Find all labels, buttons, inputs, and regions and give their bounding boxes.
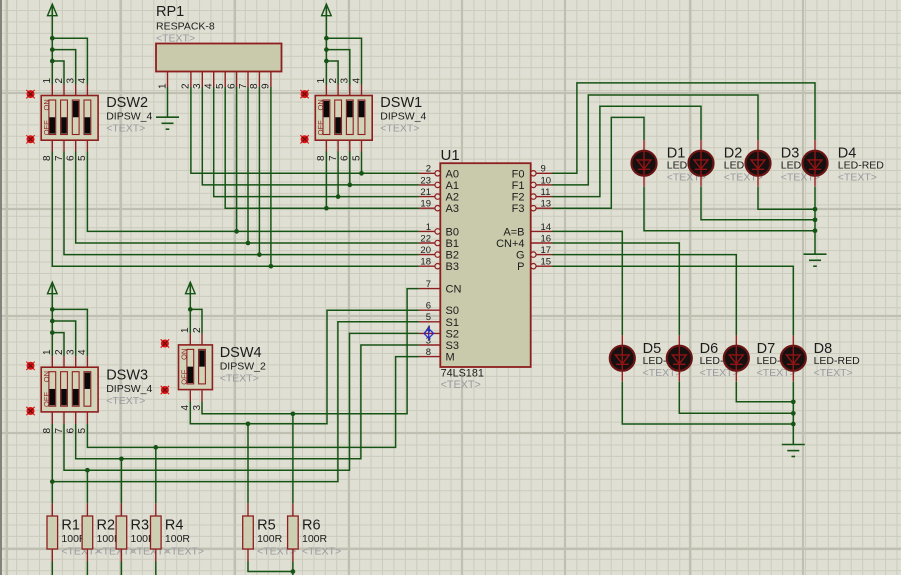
resistor R1 100R <box>47 503 58 561</box>
U1 pin 4 S2 <box>419 324 459 341</box>
U1 pin 7 CN <box>419 279 462 296</box>
svg-text:100R: 100R <box>257 533 283 545</box>
junction dot DSW4 power <box>188 307 193 312</box>
svg-text:2: 2 <box>54 78 65 84</box>
U1 pin 19 A3 <box>419 199 459 216</box>
svg-text:<TEXT>: <TEXT> <box>441 379 481 391</box>
svg-text:F2: F2 <box>512 192 525 204</box>
svg-text:A3: A3 <box>446 203 459 215</box>
svg-text:DIPSW_4: DIPSW_4 <box>106 383 152 395</box>
wire net B1 : DSW2 pin6 / RP1 pin7 to U1 B1 <box>76 152 419 244</box>
svg-text:P: P <box>517 261 524 273</box>
svg-text:<TEXT>: <TEXT> <box>106 395 145 407</box>
svg-text:7: 7 <box>54 155 65 161</box>
U1 pin 17 G <box>516 245 552 262</box>
svg-text:3: 3 <box>192 405 203 411</box>
svg-text:F0: F0 <box>512 168 525 180</box>
U1 pin 5 S1 <box>419 312 459 329</box>
svg-text:DSW1: DSW1 <box>380 95 422 111</box>
svg-text:CN: CN <box>446 284 462 296</box>
svg-text:<TEXT>: <TEXT> <box>165 546 204 558</box>
power symbol VCC above DSW1 <box>325 4 327 16</box>
svg-text:2: 2 <box>426 164 431 175</box>
wire net S2 : DSW3 pin7 / R2 to U1 S2 <box>64 333 419 470</box>
U1 pin 9 F0 <box>512 164 552 181</box>
wire net A=B : U1 to D5 <box>552 231 622 335</box>
power symbol VCC above DSW3 <box>51 282 53 294</box>
svg-text:<TEXT>: <TEXT> <box>380 123 419 135</box>
svg-text:S3: S3 <box>446 340 459 352</box>
wire R2 bottom <box>86 562 88 575</box>
wire net B2 : DSW2 pin7 / RP1 pin8 to U1 B2 <box>64 152 419 255</box>
U1 pin 2 A0 <box>419 164 459 181</box>
U1 pin 16 CN+4 <box>496 233 552 250</box>
svg-text:6: 6 <box>426 301 431 312</box>
svg-text:3: 3 <box>66 349 77 355</box>
svg-text:23: 23 <box>420 175 431 186</box>
no-connect marker DSW3 top-left <box>26 362 34 370</box>
svg-text:LED-RED: LED-RED <box>838 159 885 171</box>
svg-text:DIPSW_2: DIPSW_2 <box>220 361 266 373</box>
svg-text:B3: B3 <box>446 261 459 273</box>
resistor R4 100R <box>151 503 162 561</box>
no-connect marker DSW2 bottom-left <box>26 135 34 143</box>
svg-text:<TEXT>: <TEXT> <box>61 546 100 558</box>
svg-text:DSW3: DSW3 <box>106 368 148 384</box>
dip switch DSW2 DIPSW_4 <box>41 78 98 162</box>
svg-text:19: 19 <box>420 199 431 210</box>
svg-text:16: 16 <box>541 233 552 244</box>
svg-text:DSW2: DSW2 <box>106 95 148 111</box>
LED D7 LED-RED <box>724 335 749 381</box>
svg-text:F1: F1 <box>512 180 525 192</box>
dip switch DSW3 DIPSW_4 <box>41 349 98 434</box>
svg-text:S2: S2 <box>446 328 459 340</box>
wire DSW3 power rail <box>51 293 53 356</box>
svg-text:6: 6 <box>226 83 237 89</box>
wire net CN : DSW4 pin3 / R6 to U1 CN <box>202 289 419 414</box>
wire net B3 : DSW2 pin8 / RP1 pin9 to U1 B3 <box>52 152 419 267</box>
wire D2 cathode to ground rail <box>701 186 815 219</box>
svg-text:<TEXT>: <TEXT> <box>106 123 145 135</box>
svg-text:100R: 100R <box>165 533 191 545</box>
wire DSW4 power rail <box>189 293 191 334</box>
svg-text:R5: R5 <box>257 518 276 534</box>
wire net S1 : DSW3 pin8 / R1 to U1 S1 <box>52 322 419 482</box>
svg-text:U1: U1 <box>441 147 460 164</box>
wire R4 bottom <box>155 562 157 575</box>
svg-text:8: 8 <box>42 428 53 434</box>
svg-text:4: 4 <box>204 83 215 89</box>
wire R4 pullup drop <box>155 447 157 503</box>
wire D6 cathode to ground rail <box>679 381 793 413</box>
svg-text:13: 13 <box>541 199 552 210</box>
wire D8 cathode down <box>792 381 794 444</box>
LED D4 LED-RED <box>803 140 828 186</box>
svg-text:8: 8 <box>249 83 260 89</box>
svg-text:9: 9 <box>541 164 546 175</box>
wire D1 cathode to ground rail <box>644 186 815 230</box>
wire net F0 : U1 F0 to D4 <box>552 83 815 173</box>
svg-text:DIPSW_4: DIPSW_4 <box>380 111 426 123</box>
svg-text:18: 18 <box>420 257 431 268</box>
svg-text:4: 4 <box>77 78 88 84</box>
U1 pin 11 F2 <box>512 187 552 204</box>
junction dots DSW2 power <box>50 36 55 41</box>
resistor R3 100R <box>116 503 127 561</box>
power symbol VCC above DSW2 <box>51 4 53 16</box>
svg-text:5: 5 <box>351 155 362 161</box>
svg-text:8: 8 <box>426 347 431 358</box>
svg-text:7: 7 <box>426 279 431 290</box>
ground below D8 <box>782 444 805 446</box>
U1 pin 15 P <box>517 257 552 274</box>
svg-text:S1: S1 <box>446 317 459 329</box>
wire net S3 : DSW3 pin6 / R3 to U1 S3 <box>76 345 419 459</box>
U1 pin 8 M <box>419 347 455 364</box>
svg-text:6: 6 <box>66 155 77 161</box>
wire net CN+4 : U1 to D6 <box>552 243 679 335</box>
svg-text:5: 5 <box>215 83 226 89</box>
LED D8 LED-RED <box>781 335 806 381</box>
no-connect marker DSW2 top-left <box>26 90 34 98</box>
wire DSW1 pin5 drop <box>361 152 363 174</box>
svg-text:1: 1 <box>180 327 191 333</box>
wire net F1 : U1 F1 to D3 <box>552 95 758 185</box>
svg-text:4: 4 <box>180 405 191 411</box>
LED D6 LED-RED <box>667 335 692 381</box>
svg-text:6: 6 <box>340 155 351 161</box>
svg-text:7: 7 <box>238 83 249 89</box>
wire R3 bottom <box>120 562 122 575</box>
svg-text:R4: R4 <box>165 518 184 534</box>
svg-text:G: G <box>516 250 525 262</box>
svg-text:2: 2 <box>181 83 192 89</box>
svg-text:5: 5 <box>77 428 88 434</box>
wire net A3 : RP1 pin5 / DSW1 pin8 to U1 A3 <box>225 87 419 208</box>
svg-text:A2: A2 <box>446 192 459 204</box>
svg-text:B1: B1 <box>446 238 459 250</box>
U1 pin 6 S0 <box>419 301 459 318</box>
U1 pin 14 A=B <box>503 222 552 239</box>
svg-text:2: 2 <box>54 349 65 355</box>
wire R2 pullup drop <box>86 470 88 503</box>
svg-text:R3: R3 <box>131 518 150 534</box>
wire D4 cathode down <box>814 186 816 254</box>
U1 pin 20 B2 <box>419 245 459 262</box>
svg-text:20: 20 <box>420 245 431 256</box>
wire net F2 : U1 F2 to D2 <box>552 106 701 196</box>
svg-text:100R: 100R <box>302 533 328 545</box>
svg-text:R2: R2 <box>97 518 116 534</box>
svg-text:7: 7 <box>328 155 339 161</box>
svg-text:1: 1 <box>426 222 431 233</box>
wire net G : U1 to D7 <box>552 255 736 336</box>
wire net P : U1 to D8 <box>552 266 793 335</box>
svg-text:A0: A0 <box>446 168 459 180</box>
U1 pin 1 B0 <box>419 222 459 239</box>
svg-text:<TEXT>: <TEXT> <box>302 546 341 558</box>
U1 pin 3 S3 <box>419 335 459 352</box>
LED D1 LED-RED <box>632 140 657 186</box>
svg-text:B2: B2 <box>446 250 459 262</box>
LED D3 LED-RED <box>746 140 771 186</box>
svg-text:5: 5 <box>426 312 431 323</box>
wire DSW1 power rail <box>325 15 327 84</box>
wire RP1 pin1 to ground <box>167 87 169 117</box>
dip switch DSW1 DIPSW_4 <box>315 78 372 162</box>
svg-text:22: 22 <box>420 233 431 244</box>
svg-text:5: 5 <box>77 155 88 161</box>
wire DSW2 power rail <box>51 15 53 84</box>
svg-text:4: 4 <box>77 349 88 355</box>
svg-text:F3: F3 <box>512 203 525 215</box>
svg-text:1: 1 <box>42 349 53 355</box>
wire R5 pullup drop <box>247 424 249 504</box>
no-connect marker DSW4 bottom-left <box>161 386 169 394</box>
wire DSW1 pin7 drop <box>337 152 339 197</box>
wire R1 bottom <box>51 562 53 575</box>
svg-text:10: 10 <box>541 175 552 186</box>
wire net M : DSW3 pin5 / R4 to U1 M <box>87 357 419 448</box>
ground below D4 <box>804 253 827 255</box>
svg-text:<TEXT>: <TEXT> <box>156 33 195 45</box>
wire net A0 : RP1 pin2 / DSW1 pin5 to U1 A0 <box>191 87 419 173</box>
resistor pack RP1 <box>156 44 282 90</box>
ALU U1 74LS181 body <box>440 163 530 367</box>
U1 pin 21 A2 <box>419 187 459 204</box>
svg-text:4: 4 <box>351 78 362 84</box>
svg-text:2: 2 <box>328 78 339 84</box>
svg-text:17: 17 <box>541 245 552 256</box>
svg-text:R1: R1 <box>61 518 80 534</box>
resistor R6 100R <box>288 503 299 561</box>
svg-text:8: 8 <box>42 155 53 161</box>
svg-text:6: 6 <box>66 428 77 434</box>
svg-text:1: 1 <box>316 78 327 84</box>
U1 pin 22 B1 <box>419 233 459 250</box>
U1 pin 13 F3 <box>512 199 552 216</box>
resistor R5 100R <box>243 503 254 561</box>
svg-text:DSW4: DSW4 <box>220 345 262 361</box>
wire D5 cathode to ground rail <box>622 381 793 424</box>
junction dots DSW3 power <box>50 307 55 312</box>
junction dots DSW1 power <box>324 36 329 41</box>
svg-text:2: 2 <box>192 327 203 333</box>
svg-text:M: M <box>446 352 455 364</box>
svg-text:S0: S0 <box>446 305 459 317</box>
svg-text:DIPSW_4: DIPSW_4 <box>106 111 152 123</box>
svg-text:CN+4: CN+4 <box>496 238 524 250</box>
svg-text:1: 1 <box>157 83 168 89</box>
origin marker at U1 S2 pin <box>424 329 434 339</box>
wire net F3 : U1 F3 to D1 <box>552 117 644 208</box>
wire net B0 : DSW2 pin5 / RP1 pin6 to U1 B0 <box>87 152 419 232</box>
svg-text:14: 14 <box>541 222 552 233</box>
no-connect marker DSW1 top-left <box>300 90 308 98</box>
svg-text:RESPACK-8: RESPACK-8 <box>156 21 215 33</box>
svg-text:21: 21 <box>420 187 431 198</box>
svg-text:A1: A1 <box>446 180 459 192</box>
wire D3 cathode to ground rail <box>758 186 815 209</box>
svg-text:3: 3 <box>192 83 203 89</box>
svg-text:74LS181: 74LS181 <box>441 368 484 380</box>
no-connect marker DSW4 top-left <box>161 339 169 347</box>
wire D7 cathode to ground rail <box>736 381 793 401</box>
wire DSW1 pin6 drop <box>349 152 351 185</box>
wire DSW1 pin8 drop <box>325 152 327 209</box>
svg-text:9: 9 <box>261 83 272 89</box>
wire R5 bottom to R6 <box>248 562 293 572</box>
power symbol VCC above DSW4 <box>189 282 191 294</box>
svg-text:<TEXT>: <TEXT> <box>220 373 259 385</box>
wire net S0 : DSW4 pin4 / R5 to U1 S0 <box>190 310 419 424</box>
svg-text:1: 1 <box>42 78 53 84</box>
wire R1 pullup drop <box>51 482 53 504</box>
svg-text:<TEXT>: <TEXT> <box>838 171 877 183</box>
U1 pin 23 A1 <box>419 175 459 192</box>
wire net A2 : RP1 pin4 / DSW1 pin7 to U1 A2 <box>214 87 419 197</box>
resistor R2 100R <box>82 503 93 561</box>
U1 pin 18 B3 <box>419 257 459 274</box>
svg-text:3: 3 <box>66 78 77 84</box>
svg-text:B0: B0 <box>446 226 459 238</box>
svg-text:A=B: A=B <box>503 226 524 238</box>
svg-text:LED-RED: LED-RED <box>814 355 861 367</box>
no-connect marker DSW1 bottom-left <box>300 135 308 143</box>
LED D2 LED-RED <box>689 140 714 186</box>
svg-text:11: 11 <box>541 187 551 198</box>
U1 pin 10 F1 <box>512 175 552 192</box>
svg-text:<TEXT>: <TEXT> <box>814 367 853 379</box>
svg-text:15: 15 <box>541 257 552 268</box>
ground below RP1 pin1 <box>156 116 179 118</box>
wire R6 pullup drop <box>292 414 294 504</box>
wire net A1 : RP1 pin3 / DSW1 pin6 to U1 A1 <box>202 87 419 185</box>
wire R6 bottom <box>292 562 294 575</box>
LED D5 LED-RED <box>610 335 635 381</box>
dip switch DSW4 DIPSW_2 <box>179 327 213 411</box>
svg-text:R6: R6 <box>302 518 321 534</box>
svg-text:7: 7 <box>54 428 65 434</box>
wire R3 pullup drop <box>120 459 122 504</box>
svg-text:3: 3 <box>340 78 351 84</box>
svg-text:RP1: RP1 <box>156 4 184 20</box>
no-connect marker DSW3 bottom-left <box>26 407 34 415</box>
svg-text:8: 8 <box>316 155 327 161</box>
